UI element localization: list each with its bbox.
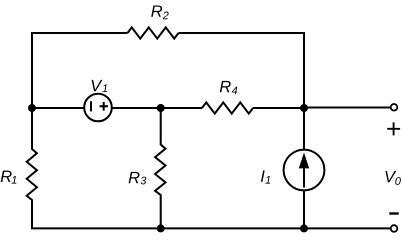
resistor R1 (left branch) — [27, 108, 37, 228]
node D: middle node bottom — [157, 224, 165, 232]
wire: bottom horizontal — [31, 227, 391, 229]
I1 arrow head — [299, 153, 309, 169]
wire: right node to top output terminal — [304, 107, 391, 109]
label I1 — [261, 170, 265, 181]
V1 plus sign — [100, 102, 109, 111]
wire: R4 to right node — [253, 107, 304, 109]
label R4 — [220, 81, 231, 92]
wire: top-left vertical segment — [31, 33, 33, 108]
wire: top horizontal left of R2 — [31, 32, 128, 34]
wire: I1 to bottom — [303, 190, 305, 228]
plus sign (output polarity) — [387, 122, 400, 135]
label V1 — [92, 80, 103, 91]
wire: V1 to middle node to R4 — [112, 107, 203, 109]
node A: left node — [28, 104, 36, 112]
node C: right node top — [300, 104, 308, 112]
wire: main horizontal, left node to V1 — [32, 107, 85, 109]
terminal: bottom output — [391, 225, 398, 232]
label R1 — [1, 171, 12, 182]
resistor R3 (middle branch) — [155, 108, 165, 228]
I1 arrow shaft — [303, 166, 305, 188]
current source I1 — [284, 150, 325, 191]
label R3 — [129, 172, 140, 183]
voltage source V1 — [84, 94, 112, 122]
wire: right node down to I1 — [303, 108, 305, 150]
resistor R4 — [202, 102, 253, 113]
label V0 — [385, 171, 396, 182]
resistor R2 — [128, 27, 179, 38]
minus sign (output polarity) — [389, 212, 398, 214]
terminal: top output — [391, 104, 398, 111]
wire: right vertical from top to node — [303, 32, 305, 108]
node E: right node bottom — [300, 224, 308, 232]
label R2 — [151, 5, 162, 16]
V1 minus bar — [90, 101, 92, 111]
wire: top horizontal right of R2 — [179, 32, 305, 34]
node B: middle node top — [157, 104, 165, 112]
